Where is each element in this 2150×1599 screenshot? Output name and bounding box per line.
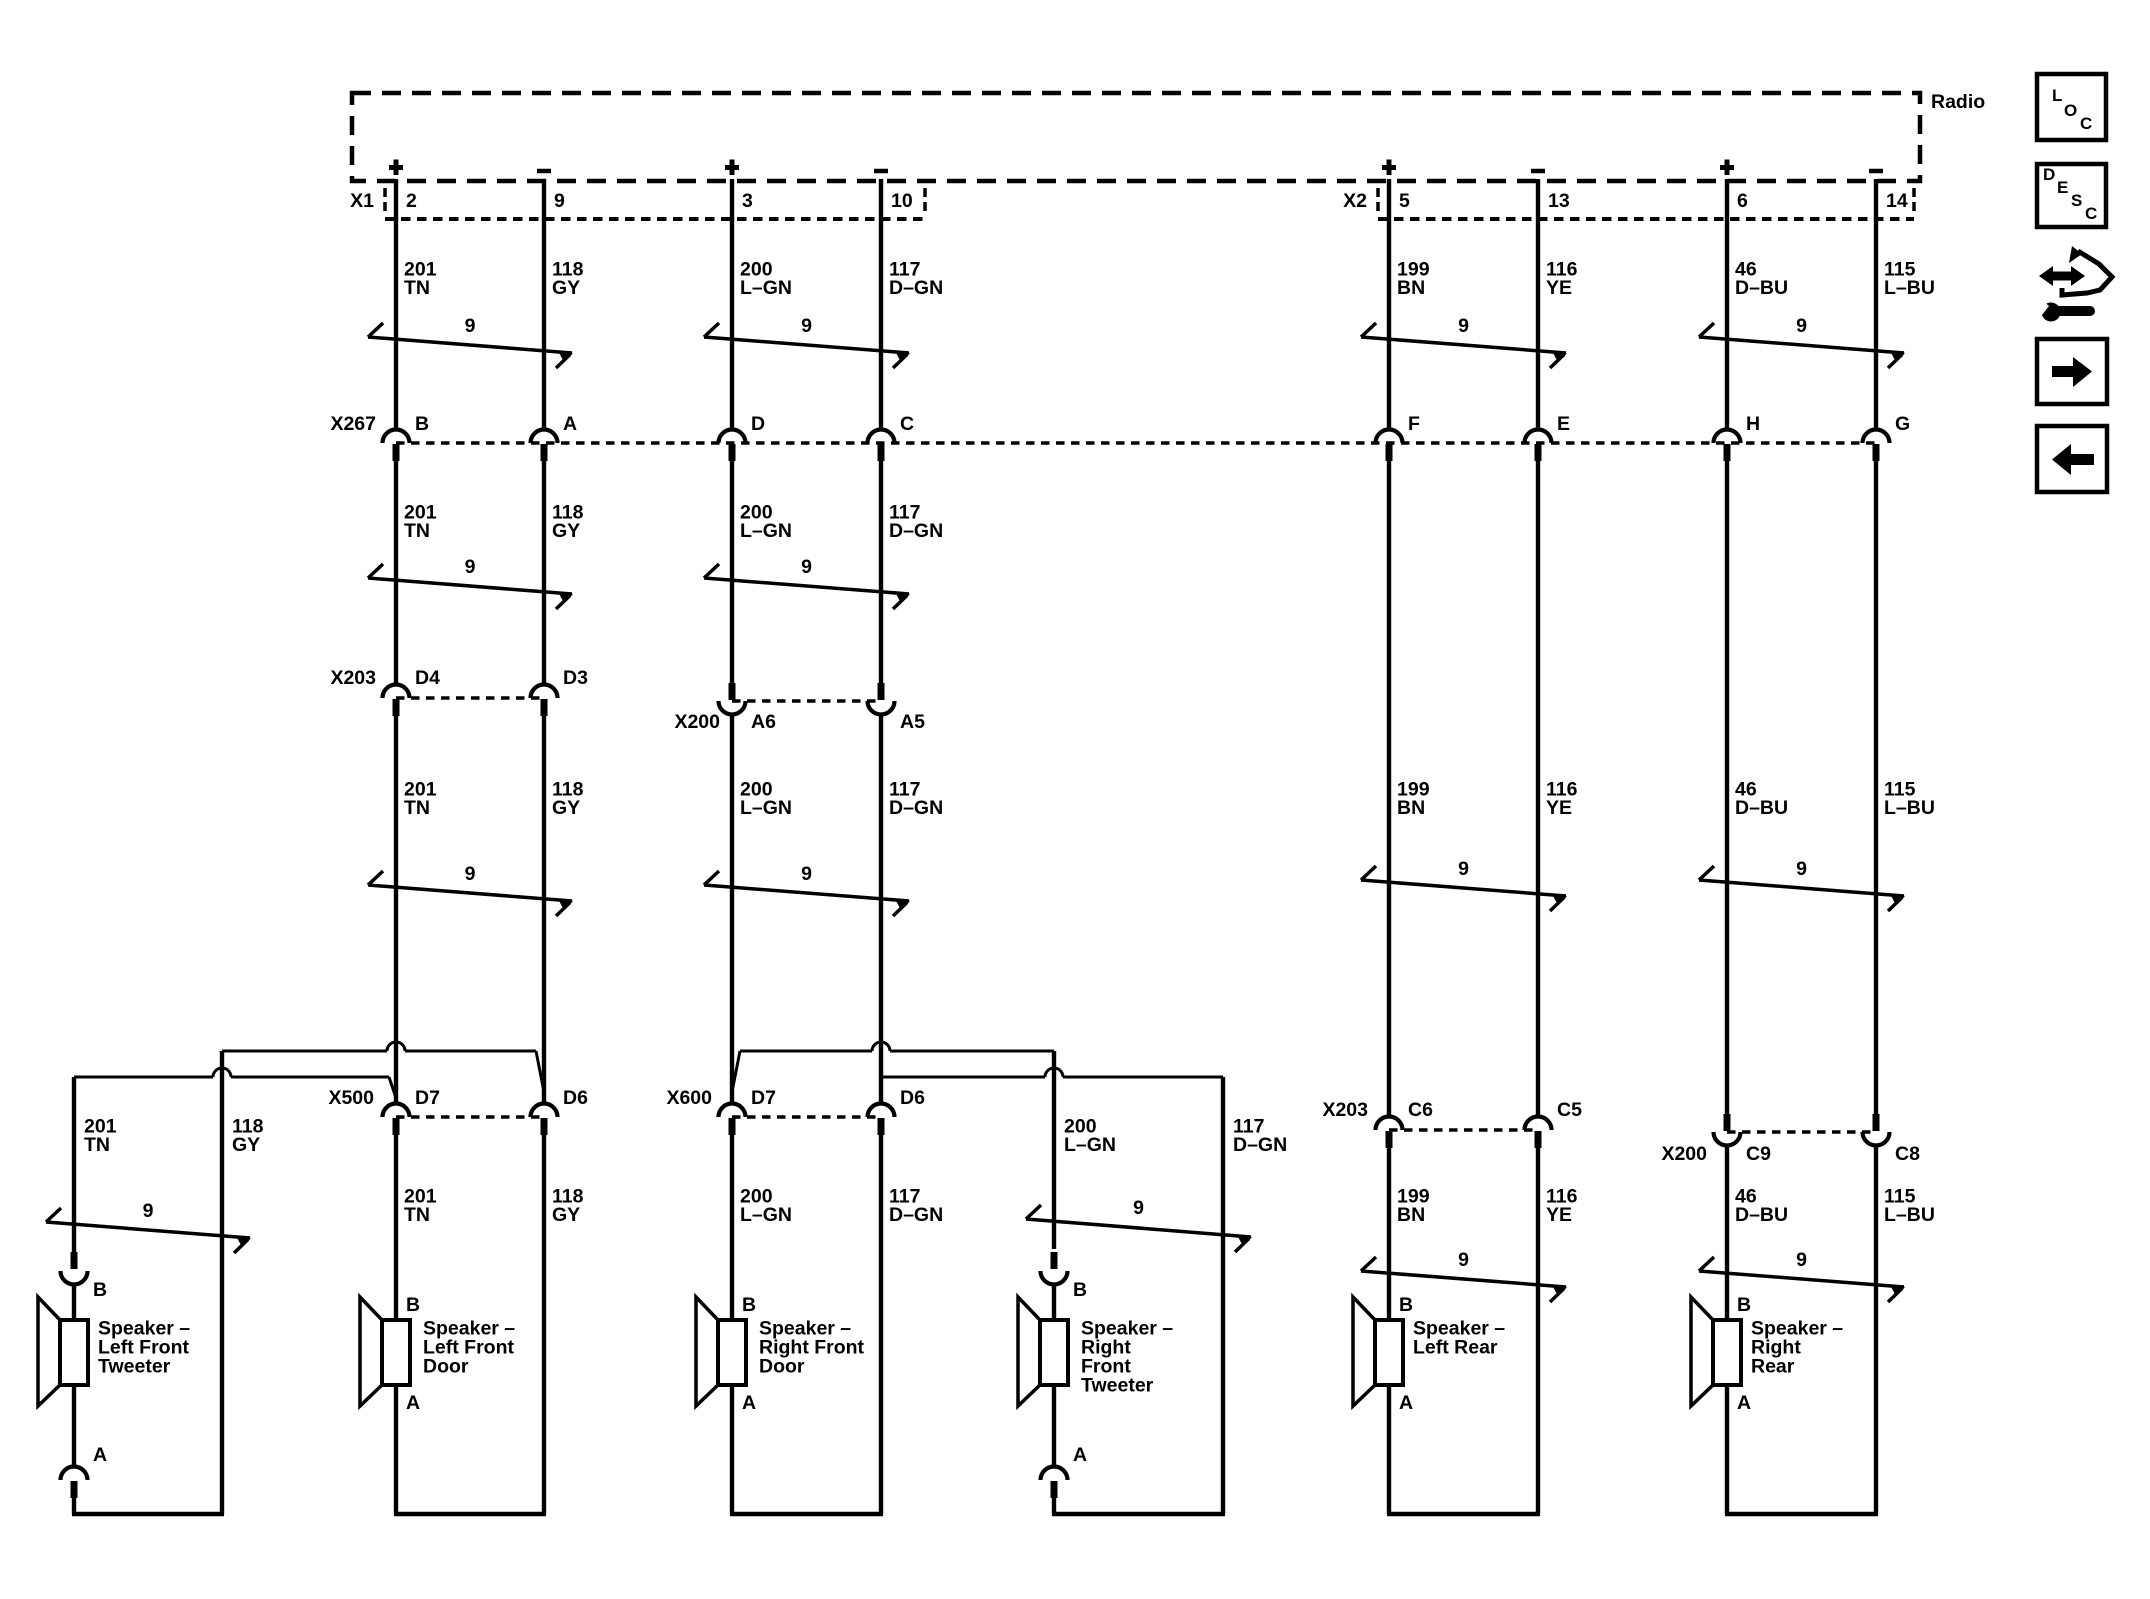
svg-text:D: D	[751, 413, 765, 435]
wire label 199 BN (radio to X267)	[1397, 258, 1430, 299]
speaker symbol Left Front Tweeter	[38, 1297, 88, 1406]
svg-text:9: 9	[801, 556, 812, 578]
wire label 115 L&#8211;BU (radio to X267)	[1884, 258, 1935, 299]
svg-text:L–GN: L–GN	[740, 797, 792, 819]
svg-text:C: C	[2080, 114, 2092, 133]
svg-text:D4: D4	[415, 667, 440, 689]
svg-text:S: S	[2071, 191, 2082, 210]
svg-text:C: C	[2085, 204, 2097, 223]
wire label 201 TN (connector to speaker)	[404, 1185, 437, 1226]
wire 200 L-GN segment X600 to right front door speaker	[730, 1135, 734, 1320]
svg-text:C8: C8	[1895, 1143, 1920, 1165]
wire 200 L-GN segment radio to X267	[730, 179, 734, 430]
connector X200 rear terminal C8	[1863, 1114, 1890, 1146]
svg-text:9: 9	[465, 556, 476, 578]
wire 116 YE segment X203 to loop bottom	[1536, 1148, 1540, 1514]
svg-text:BN: BN	[1397, 1204, 1425, 1226]
wire 199 BN segment X267 to X203 rear	[1387, 461, 1391, 1117]
pin 9 polarity mark (−)	[537, 169, 551, 174]
label Speaker - Left Front Door	[423, 1317, 515, 1377]
svg-text:B: B	[406, 1294, 420, 1316]
svg-text:X1: X1	[350, 190, 374, 212]
svg-text:D6: D6	[900, 1087, 925, 1109]
svg-text:9: 9	[1796, 1249, 1807, 1271]
wire 46 D-BU segment radio to X267	[1725, 179, 1729, 430]
connector X500 terminal D6	[531, 1104, 558, 1136]
wire tweeter 201 TN segment tap to B connector	[72, 1077, 76, 1252]
wire label 199 BN (to rear connectors)	[1397, 778, 1430, 819]
svg-text:F: F	[1408, 413, 1420, 435]
twisted pair symbol (9 twists) right rear speaker leads	[1699, 1249, 1905, 1302]
svg-text:Radio: Radio	[1931, 91, 1985, 113]
svg-text:2: 2	[406, 190, 417, 212]
wire label 46 D&#8211;BU (connector to rear speaker)	[1735, 1185, 1788, 1226]
svg-text:L–GN: L–GN	[1064, 1134, 1116, 1156]
tweeter B terminal connector (right)	[1041, 1252, 1068, 1285]
svg-text:D–BU: D–BU	[1735, 797, 1788, 819]
twisted pair symbol (9 twists) pair left front mid	[368, 556, 573, 609]
connector X2 band (dotted outline)	[1378, 188, 1914, 219]
svg-text:L–GN: L–GN	[740, 520, 792, 542]
pin 6 polarity mark (+)	[1720, 160, 1734, 176]
svg-text:B: B	[1073, 1279, 1087, 1301]
wire hop (L-GN branch over 117 D-GN)	[872, 1042, 890, 1051]
pin 13 polarity mark (−)	[1531, 169, 1545, 174]
wire 118 GY segment X203 to X500	[542, 716, 546, 1104]
connector X200 terminal A5	[868, 683, 895, 715]
svg-text:Left Rear: Left Rear	[1413, 1336, 1498, 1358]
svg-text:14: 14	[1886, 190, 1908, 212]
svg-text:X200: X200	[674, 711, 720, 733]
wire tweeter 201 TN segment B to speaker	[72, 1285, 76, 1321]
connector X1 band (dotted outline)	[385, 188, 925, 219]
wire label 200 L&#8211;GN (X267 to X203/X200)	[740, 501, 792, 542]
wire label 46 D&#8211;BU (to rear connectors)	[1735, 778, 1788, 819]
connector X267 terminal B	[383, 430, 410, 462]
svg-text:5: 5	[1399, 190, 1410, 212]
wire tweeter 118 GY return	[220, 1051, 224, 1514]
wire tweeter 200 L-GN segment B to speaker	[1052, 1285, 1056, 1321]
wire label 46 D&#8211;BU (radio to X267)	[1735, 258, 1788, 299]
svg-text:A: A	[406, 1392, 420, 1414]
twisted pair symbol (9 twists) radio pair right rear	[1699, 315, 1905, 368]
wire hop (GY branch over 201 TN)	[387, 1042, 405, 1051]
radio (dashed component box)	[352, 93, 1920, 181]
svg-text:9: 9	[143, 1200, 154, 1222]
svg-text:Tweeter: Tweeter	[98, 1355, 171, 1377]
svg-text:YE: YE	[1546, 1204, 1572, 1226]
svg-text:A5: A5	[900, 711, 925, 733]
wire tweeter 201 TN segment speaker to A connector	[72, 1385, 76, 1467]
svg-text:A: A	[563, 413, 577, 435]
wire 116 YE segment X267 to X203 rear	[1536, 461, 1540, 1117]
label Speaker - Left Front Tweeter	[98, 1317, 190, 1377]
connector X600 terminal D7	[719, 1104, 746, 1136]
svg-text:TN: TN	[404, 797, 430, 819]
svg-text:E: E	[1557, 413, 1570, 435]
wire hop (TN branch over tweeter GY)	[213, 1068, 231, 1077]
svg-text:X600: X600	[666, 1087, 712, 1109]
svg-text:X2: X2	[1343, 190, 1367, 212]
speaker symbol Left Front Door	[360, 1297, 410, 1406]
label Speaker - Right Rear	[1751, 1317, 1843, 1377]
svg-text:BN: BN	[1397, 277, 1425, 299]
svg-text:X200: X200	[1661, 1143, 1707, 1165]
wire label 116 YE (connector to rear speaker)	[1546, 1185, 1578, 1226]
wire label 201 TN (X267 to X203/X200)	[404, 501, 437, 542]
connector X500 terminal D7	[383, 1104, 410, 1136]
svg-text:L–GN: L–GN	[740, 1204, 792, 1226]
connector X267 terminal F	[1376, 430, 1403, 462]
svg-text:Rear: Rear	[1751, 1355, 1795, 1377]
svg-text:BN: BN	[1397, 797, 1425, 819]
wire label 118 GY (radio to X267)	[552, 258, 584, 299]
wire 115 L-BU segment X267 to X200 rear	[1874, 461, 1878, 1114]
connector X200 dashed body	[732, 699, 881, 703]
wire label 201 TN (left tweeter +)	[84, 1115, 117, 1156]
wire label 116 YE (to rear connectors)	[1546, 778, 1578, 819]
wire branch 118 GY tweeter tap (upper)	[222, 1051, 544, 1092]
svg-text:D–GN: D–GN	[889, 1204, 943, 1226]
wire branch 200 L-GN tweeter tap (upper)	[732, 1051, 1054, 1092]
wire 201 TN segment left front door speaker to loop	[394, 1385, 398, 1514]
wire branch 201 TN tweeter tap (lower)	[74, 1077, 396, 1098]
connector X203 terminal D3	[531, 685, 558, 717]
svg-text:D–BU: D–BU	[1735, 1204, 1788, 1226]
svg-text:Door: Door	[759, 1355, 805, 1377]
svg-text:C5: C5	[1557, 1099, 1582, 1121]
svg-text:3: 3	[742, 190, 753, 212]
connector X203 terminal D4	[383, 685, 410, 717]
icon LOC (location button)	[2037, 74, 2106, 140]
wire 46 D-BU segment X200 to right rear speaker	[1725, 1146, 1729, 1321]
twisted pair symbol (9 twists) radio pair left rear	[1361, 315, 1567, 368]
svg-text:B: B	[742, 1294, 756, 1316]
svg-text:TN: TN	[84, 1134, 110, 1156]
svg-text:D7: D7	[751, 1087, 776, 1109]
wire loop bottom right rear	[1725, 1512, 1878, 1516]
twisted pair symbol (9 twists) pair left rear mid	[1361, 858, 1567, 911]
svg-text:9: 9	[465, 315, 476, 337]
wire 200 L-GN segment X267 to X200	[730, 461, 734, 683]
wire label 201 TN (radio to X267)	[404, 258, 437, 299]
svg-text:TN: TN	[404, 1204, 430, 1226]
svg-text:6: 6	[1737, 190, 1748, 212]
svg-text:9: 9	[554, 190, 565, 212]
wire 115 L-BU segment radio to X267	[1874, 179, 1878, 430]
wire label 200 L&#8211;GN (right tweeter +)	[1064, 1115, 1116, 1156]
pin 10 polarity mark (−)	[874, 169, 888, 174]
svg-text:GY: GY	[552, 1204, 580, 1226]
label Speaker - Left Rear	[1413, 1317, 1505, 1358]
wire 118 GY segment radio to X267	[542, 179, 546, 430]
svg-text:GY: GY	[232, 1134, 260, 1156]
svg-text:Tweeter: Tweeter	[1081, 1374, 1154, 1396]
svg-text:E: E	[2057, 178, 2068, 197]
wire 46 D-BU segment X267 to X200 rear	[1725, 461, 1729, 1114]
svg-text:D7: D7	[415, 1087, 440, 1109]
tweeter B terminal connector (left)	[61, 1252, 88, 1285]
svg-text:Door: Door	[423, 1355, 469, 1377]
wire 117 D-GN segment X600 to loop bottom	[879, 1135, 883, 1514]
speaker symbol Right Front Tweeter	[1018, 1297, 1068, 1406]
svg-text:B: B	[415, 413, 429, 435]
wire label 199 BN (connector to rear speaker)	[1397, 1185, 1430, 1226]
wire 118 GY segment X500 to loop bottom	[542, 1135, 546, 1514]
connector X267 terminal H	[1714, 430, 1741, 462]
svg-text:O: O	[2064, 101, 2077, 120]
wire tweeter 200 L-GN segment A to loop bottom	[1052, 1498, 1056, 1514]
wire label 115 L&#8211;BU (connector to rear speaker)	[1884, 1185, 1935, 1226]
svg-text:9: 9	[1458, 1249, 1469, 1271]
wire 199 BN segment radio to X267	[1387, 179, 1391, 430]
tweeter A terminal connector (left)	[61, 1467, 88, 1499]
svg-text:B: B	[1399, 1294, 1413, 1316]
icon harness navigation (arrows and wrench)	[2030, 246, 2112, 322]
pin 14 polarity mark (−)	[1869, 169, 1883, 174]
svg-text:YE: YE	[1546, 797, 1572, 819]
svg-text:D6: D6	[563, 1087, 588, 1109]
tweeter A terminal connector (right)	[1041, 1467, 1068, 1499]
wire loop bottom left rear	[1387, 1512, 1540, 1516]
connector X203 rear dashed body	[1389, 1128, 1538, 1132]
wire label 117 D&#8211;GN (to door connectors)	[889, 778, 943, 819]
svg-text:X203: X203	[1322, 1099, 1368, 1121]
twisted pair symbol (9 twists) pair left front lower	[368, 863, 573, 916]
connector X267 terminal C	[868, 430, 895, 462]
wire 117 D-GN segment radio to X267	[879, 179, 883, 430]
label Speaker - Right Front Door	[759, 1317, 865, 1377]
wire 199 BN segment X203 to left rear speaker	[1387, 1148, 1391, 1320]
connector X600 dashed body	[732, 1115, 881, 1119]
svg-text:9: 9	[801, 315, 812, 337]
wire 201 TN segment X203 to X500	[394, 716, 398, 1104]
twisted pair symbol (9 twists) radio pair right front	[704, 315, 910, 368]
svg-text:13: 13	[1548, 190, 1570, 212]
svg-text:L–BU: L–BU	[1884, 277, 1935, 299]
svg-text:X500: X500	[328, 1087, 374, 1109]
svg-text:9: 9	[465, 863, 476, 885]
connector X200 rear dashed body	[1727, 1130, 1876, 1134]
svg-text:D–GN: D–GN	[889, 277, 943, 299]
svg-text:A: A	[742, 1392, 756, 1414]
connector X203 rear terminal C6	[1376, 1117, 1403, 1149]
wire loop bottom right front door	[730, 1512, 883, 1516]
twisted pair symbol (9 twists) left front tweeter leads	[46, 1200, 251, 1253]
svg-text:H: H	[1746, 413, 1760, 435]
wire label 115 L&#8211;BU (to rear connectors)	[1884, 778, 1935, 819]
speaker symbol Right Rear	[1691, 1297, 1741, 1406]
wire label 118 GY (left tweeter −)	[232, 1115, 264, 1156]
svg-text:9: 9	[1458, 858, 1469, 880]
wire label 117 D&#8211;GN (X267 to X203/X200)	[889, 501, 943, 542]
wire tweeter 200 L-GN segment speaker to A connector	[1052, 1385, 1056, 1467]
wire label 200 L&#8211;GN (radio to X267)	[740, 258, 792, 299]
connector X203 rear terminal C5	[1525, 1117, 1552, 1149]
twisted pair symbol (9 twists) right front tweeter leads	[1026, 1197, 1252, 1252]
wire 117 D-GN segment X267 to X200	[879, 461, 883, 683]
wire 116 YE segment radio to X267	[1536, 179, 1540, 430]
svg-text:X203: X203	[330, 667, 376, 689]
wire tweeter 200 L-GN segment tap to B connector	[1052, 1051, 1056, 1249]
svg-text:A: A	[1073, 1444, 1087, 1466]
wire label 117 D&#8211;GN (connector to speaker)	[889, 1185, 943, 1226]
wire label 117 D&#8211;GN (radio to X267)	[889, 258, 943, 299]
wire label 200 L&#8211;GN (to door connectors)	[740, 778, 792, 819]
wire hop (D-GN branch over tweeter L-GN)	[1045, 1068, 1063, 1077]
connector X600 terminal D6	[868, 1104, 895, 1136]
svg-text:GY: GY	[552, 797, 580, 819]
speaker symbol Left Rear	[1353, 1297, 1403, 1406]
svg-text:L–BU: L–BU	[1884, 797, 1935, 819]
wire tweeter 117 D-GN return	[1221, 1077, 1225, 1514]
twisted pair symbol (9 twists) pair right rear mid	[1699, 858, 1905, 911]
connector X267 terminal D	[719, 430, 746, 462]
wire loop bottom right tweeter	[1052, 1512, 1225, 1516]
svg-text:A: A	[1399, 1392, 1413, 1414]
svg-text:TN: TN	[404, 277, 430, 299]
connector X500 dashed body	[396, 1115, 544, 1119]
wire label 117 D&#8211;GN (right tweeter −)	[1233, 1115, 1287, 1156]
wire 201 TN segment radio to X267	[394, 179, 398, 430]
wire branch 117 D-GN tweeter tap (lower)	[881, 1076, 1223, 1079]
wire loop bottom left tweeter	[72, 1512, 224, 1516]
wire 200 L-GN segment X200 to X600	[730, 715, 734, 1104]
wire 199 BN segment left rear speaker to loop	[1387, 1385, 1391, 1514]
wire label 201 TN (to door connectors)	[404, 778, 437, 819]
svg-text:GY: GY	[552, 277, 580, 299]
wire label 116 YE (radio to X267)	[1546, 258, 1578, 299]
svg-text:9: 9	[1458, 315, 1469, 337]
svg-text:G: G	[1895, 413, 1910, 435]
svg-text:L–BU: L–BU	[1884, 1204, 1935, 1226]
svg-text:D3: D3	[563, 667, 588, 689]
connector X200 terminal A6	[719, 683, 746, 715]
icon back arrow button	[2037, 426, 2107, 492]
twisted pair symbol (9 twists) pair right front lower	[704, 863, 910, 916]
svg-text:B: B	[1737, 1294, 1751, 1316]
svg-text:GY: GY	[552, 520, 580, 542]
svg-text:D–GN: D–GN	[1233, 1134, 1287, 1156]
pin 3 polarity mark (+)	[725, 160, 739, 176]
svg-text:L: L	[2052, 86, 2062, 105]
svg-text:A: A	[93, 1444, 107, 1466]
twisted pair symbol (9 twists) pair right front mid	[704, 556, 910, 609]
wire label 200 L&#8211;GN (connector to speaker)	[740, 1185, 792, 1226]
svg-text:9: 9	[1133, 1197, 1144, 1219]
wire 200 L-GN segment right front door speaker to loop	[730, 1385, 734, 1514]
twisted pair symbol (9 twists) radio pair left front	[368, 315, 573, 368]
svg-text:X267: X267	[330, 413, 376, 435]
wire label 118 GY (to door connectors)	[552, 778, 584, 819]
wire 118 GY segment X267 to X203	[542, 461, 546, 685]
wire 201 TN segment X500 to left front door speaker	[394, 1135, 398, 1320]
wire loop bottom left front door	[394, 1512, 546, 1516]
label Speaker - Right Front Tweeter	[1081, 1317, 1173, 1396]
svg-text:9: 9	[1796, 858, 1807, 880]
svg-text:10: 10	[891, 190, 913, 212]
svg-text:D–GN: D–GN	[889, 797, 943, 819]
svg-text:D–GN: D–GN	[889, 520, 943, 542]
connector X267 terminal E	[1525, 430, 1552, 462]
svg-text:YE: YE	[1546, 277, 1572, 299]
connector X203 dashed body	[396, 696, 544, 700]
wire 201 TN segment X267 to X203	[394, 461, 398, 685]
svg-text:C9: C9	[1746, 1143, 1771, 1165]
icon forward arrow button	[2037, 339, 2107, 404]
connector X267 terminal G	[1863, 430, 1890, 462]
svg-text:A: A	[1737, 1392, 1751, 1414]
svg-text:TN: TN	[404, 520, 430, 542]
svg-text:B: B	[93, 1279, 107, 1301]
wire label 118 GY (X267 to X203/X200)	[552, 501, 584, 542]
wire 46 D-BU segment right rear speaker to loop	[1725, 1385, 1729, 1514]
pin 2 polarity mark (+)	[389, 160, 403, 176]
connector X267 dashed body	[396, 441, 1876, 445]
svg-text:C: C	[900, 413, 914, 435]
connector X200 rear terminal C9	[1714, 1114, 1741, 1146]
wire tweeter 201 TN segment A to loop bottom	[72, 1498, 76, 1514]
svg-text:9: 9	[1796, 315, 1807, 337]
svg-text:C6: C6	[1408, 1099, 1433, 1121]
wire 115 L-BU segment X200 to loop bottom	[1874, 1146, 1878, 1515]
svg-text:9: 9	[801, 863, 812, 885]
svg-text:A6: A6	[751, 711, 776, 733]
icon DESC (description button)	[2037, 164, 2106, 227]
wire label 118 GY (connector to speaker)	[552, 1185, 584, 1226]
pin 5 polarity mark (+)	[1382, 160, 1396, 176]
svg-text:L–GN: L–GN	[740, 277, 792, 299]
wire 117 D-GN segment X200 to X600	[879, 715, 883, 1104]
twisted pair symbol (9 twists) left rear speaker leads	[1361, 1249, 1567, 1302]
speaker symbol Right Front Door	[696, 1297, 746, 1406]
connector X267 terminal A	[531, 430, 558, 462]
svg-text:D–BU: D–BU	[1735, 277, 1788, 299]
svg-text:D: D	[2043, 165, 2055, 184]
